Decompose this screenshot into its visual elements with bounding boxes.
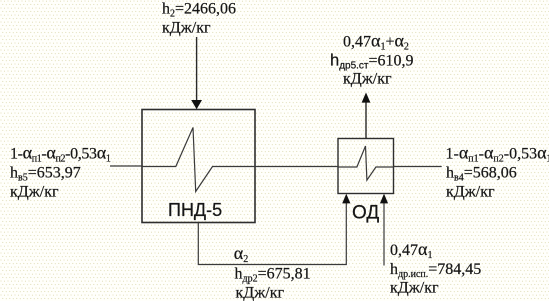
svg-text:ОД: ОД	[352, 203, 379, 224]
svg-text:кДж/кг: кДж/кг	[162, 20, 211, 37]
svg-text:кДж/кг: кДж/кг	[390, 280, 439, 297]
svg-text:кДж/кг: кДж/кг	[10, 183, 59, 200]
svg-text:кДж/кг: кДж/кг	[343, 71, 392, 88]
svg-text:кДж/кг: кДж/кг	[446, 184, 495, 201]
svg-text:0,47α1+α2: 0,47α1+α2	[343, 31, 409, 53]
svg-text:ПНД-5: ПНД-5	[168, 200, 222, 220]
svg-text:0,47α1: 0,47α1	[390, 239, 432, 261]
svg-text:кДж/кг: кДж/кг	[236, 284, 285, 301]
